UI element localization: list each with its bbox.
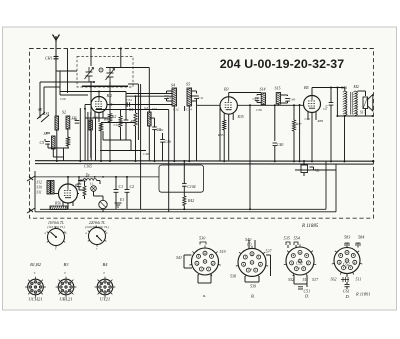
wire: IF1 sec drop	[196, 105, 198, 161]
wire: IF1 ties	[167, 91, 197, 101]
svg-text:S11: S11	[37, 191, 42, 195]
capacitor C5	[45, 142, 50, 145]
junction B1 plate	[111, 104, 113, 106]
svg-text:S17: S17	[360, 111, 366, 115]
wire: C7 wires	[125, 105, 127, 141]
capacitor C6	[75, 121, 80, 124]
wire: antenna branch	[56, 70, 77, 72]
svg-text:B.: B.	[251, 294, 255, 299]
wire: left rail	[34, 171, 36, 212]
socket D	[332, 245, 362, 275]
wire: socket D wires	[347, 243, 358, 289]
power coil S11	[51, 180, 54, 194]
wire: R36 wires	[293, 105, 295, 161]
wire: cluster bottom tie	[48, 144, 69, 161]
wire: long drop	[219, 108, 221, 161]
svg-text:C6a: C6a	[72, 117, 78, 121]
svg-text:537: 537	[266, 249, 273, 254]
wire: mid tops	[110, 105, 155, 128]
junction grid	[84, 108, 86, 110]
svg-text:C40: C40	[290, 98, 296, 102]
svg-text:a.: a.	[203, 293, 206, 298]
svg-text:C34: C34	[126, 98, 132, 102]
capacitor C61	[345, 285, 350, 287]
bus junction dots	[56, 160, 346, 162]
svg-text:B.2: B.2	[107, 93, 112, 98]
svg-text:S5: S5	[186, 82, 190, 87]
capacitor C13	[255, 98, 260, 101]
wire: left horiz A	[40, 82, 94, 87]
junction OT	[336, 87, 338, 89]
wire: S3 drop	[53, 149, 63, 157]
wire: C104 wires	[183, 161, 185, 196]
capacitor C14	[285, 99, 290, 102]
ground E1	[115, 203, 122, 207]
svg-text:C62: C62	[343, 262, 350, 267]
capacitor C40	[273, 143, 278, 146]
junction det2	[299, 104, 301, 106]
wire: lamp wires	[94, 191, 104, 212]
svg-text:S4: S4	[144, 107, 148, 111]
svg-text:C13: C13	[253, 97, 259, 101]
top marks D	[345, 243, 360, 246]
capacitor C16	[160, 140, 165, 143]
wire: socket A loop	[184, 255, 211, 283]
socket D pin digits	[339, 252, 356, 270]
junction bus right	[372, 160, 374, 162]
junction jack	[303, 160, 305, 162]
wire: IF1 out	[189, 95, 196, 97]
IF2 secondary S15	[276, 92, 280, 104]
svg-text:S2: S2	[62, 110, 66, 115]
wire: R33 drop	[223, 130, 225, 161]
capacitor C22 tone	[329, 103, 334, 106]
svg-text:R56: R56	[54, 202, 61, 206]
svg-text:552: 552	[288, 277, 294, 282]
resistor R1	[66, 137, 69, 146]
wire: mid horiz2	[85, 118, 136, 123]
svg-text:R 11885: R 11885	[301, 224, 319, 229]
svg-text:C10: C10	[114, 123, 120, 127]
svg-text:S3: S3	[44, 131, 48, 136]
svg-text:511: 511	[356, 277, 362, 282]
wire: left rail A	[40, 82, 44, 118]
socket UCH21	[25, 277, 46, 298]
variable capacitor C3	[85, 67, 94, 82]
svg-text:C1: C1	[119, 184, 124, 189]
selector 110V	[47, 226, 65, 247]
svg-text:R32: R32	[130, 119, 137, 123]
variable capacitor C4	[106, 68, 115, 83]
capacitor C2	[125, 190, 130, 193]
resistor R34	[83, 186, 86, 196]
wire: R5 wires	[120, 110, 122, 141]
wire: top-left drop	[60, 49, 88, 96]
svg-text:C2: C2	[130, 184, 135, 189]
svg-text:519: 519	[220, 249, 226, 254]
wire: B3 top	[229, 93, 262, 97]
svg-text:M2: M2	[353, 84, 359, 89]
wire: osc feedback	[106, 68, 149, 105]
junction osc	[135, 95, 137, 97]
wire: mid drops	[91, 122, 154, 161]
svg-text:R4: R4	[128, 108, 133, 112]
wire: gang to top rail	[91, 49, 121, 68]
junction IF2 out	[274, 104, 276, 106]
socket A	[189, 245, 220, 276]
wire: S1 bottom	[57, 129, 68, 161]
wire: C16 drop	[163, 110, 169, 212]
svg-text:C36: C36	[256, 108, 262, 112]
wire: speaker bottom	[365, 109, 367, 117]
wire: B3 plate	[237, 104, 303, 106]
svg-text:562: 562	[331, 277, 337, 282]
svg-text:(220/380 Volt TL): (220/380 Volt TL)	[85, 225, 108, 229]
wire: C22 drop	[330, 98, 332, 161]
wire: C1C2 wires	[116, 177, 127, 209]
junction det	[293, 104, 295, 106]
mark 111	[341, 277, 349, 282]
svg-text:Cn: Cn	[323, 107, 327, 111]
coil S3	[52, 136, 56, 149]
svg-text:C5: C5	[40, 140, 45, 145]
svg-text:C9: C9	[167, 96, 171, 100]
junction screen-bus	[249, 208, 251, 210]
wire: B5 legs	[308, 112, 316, 161]
svg-text:(110 Volt TL): (110 Volt TL)	[47, 225, 64, 229]
socket C	[284, 244, 316, 276]
wire: det riser	[299, 105, 301, 161]
wire: rect wires	[54, 177, 79, 194]
svg-text:517: 517	[312, 277, 319, 282]
trimmer	[99, 68, 103, 72]
mains arrow upper	[27, 176, 35, 181]
capacitor C9	[164, 96, 169, 99]
socket UBL21	[56, 277, 77, 298]
svg-text:UCH21: UCH21	[28, 297, 42, 302]
svg-text:E1: E1	[119, 198, 124, 202]
svg-text:C48: C48	[143, 152, 149, 156]
resistor R2	[108, 114, 111, 123]
wire: twin risers	[128, 84, 138, 140]
svg-text:S15: S15	[275, 86, 281, 91]
wire: block horiz	[100, 131, 146, 151]
resistor R3	[99, 123, 102, 132]
wire: HT bus upper	[35, 160, 374, 163]
svg-text:S12: S12	[37, 181, 43, 185]
svg-text:R38: R38	[317, 119, 324, 123]
fuse lamp	[99, 200, 107, 208]
capacitor C104	[182, 184, 187, 187]
tube B1 (UCH21 mixer)	[91, 97, 107, 113]
junction C2 top	[126, 176, 128, 178]
wire: R42 drop	[183, 206, 185, 210]
wire: gang drops	[91, 81, 110, 116]
svg-text:C104: C104	[187, 185, 195, 189]
wire: choke ends	[78, 181, 100, 185]
mains arrow lower	[27, 208, 35, 213]
svg-text:S1: S1	[46, 111, 50, 116]
svg-text:B5: B5	[304, 85, 309, 90]
wire: jack wires	[295, 161, 336, 176]
svg-text:R37: R37	[295, 122, 302, 126]
junction R42 bottom	[183, 208, 185, 210]
wire: ground bus inner	[40, 161, 326, 209]
socket B pin digits	[244, 254, 261, 272]
resistor R36	[292, 120, 295, 131]
transformer core	[350, 92, 352, 115]
wire: B3 legs	[224, 113, 233, 160]
svg-text:583: 583	[344, 235, 350, 240]
wire: left horiz B	[44, 133, 50, 140]
wire: HT bus lower	[35, 163, 374, 166]
svg-text:D.: D.	[304, 294, 309, 299]
svg-text:C30: C30	[93, 116, 99, 120]
wire: psu mid wires	[79, 177, 85, 199]
svg-text:C11: C11	[198, 96, 204, 100]
IF1 secondary S5	[187, 88, 192, 106]
wire: IF1 drops	[174, 106, 189, 161]
dial lamp	[91, 186, 97, 192]
top marks C	[286, 242, 298, 245]
coil S1a hatched	[89, 120, 92, 130]
svg-text:C40: C40	[277, 143, 283, 147]
power coil S10	[47, 180, 50, 194]
pickup jack	[301, 165, 308, 173]
capacitor C30	[77, 184, 82, 187]
svg-text:CH1: CH1	[45, 56, 53, 61]
svg-text:S10: S10	[37, 186, 43, 190]
svg-text:204 U-00-19-20-32-37: 204 U-00-19-20-32-37	[220, 57, 345, 71]
svg-text:S16: S16	[341, 85, 347, 90]
svg-text:C35: C35	[305, 117, 311, 121]
svg-text:C52: C52	[296, 261, 303, 266]
junction gang-left	[90, 48, 92, 50]
resistor R42	[183, 196, 186, 206]
svg-text:539: 539	[250, 284, 256, 289]
wire: C40 drop	[274, 146, 276, 161]
wire: B5 plate to OT	[312, 88, 345, 96]
wire: negative-rail loop	[159, 165, 204, 192]
capacitor C8	[152, 127, 157, 130]
svg-text:C26: C26	[60, 97, 66, 101]
socket A pin digits	[197, 253, 214, 271]
output transformer primary S16	[343, 91, 347, 116]
resistor R5	[119, 116, 122, 127]
selector 220V	[88, 225, 106, 246]
svg-text:584: 584	[358, 235, 364, 240]
power line junction dots	[78, 176, 104, 178]
tube B4 rectifier (UY21)	[59, 184, 78, 203]
wire: osc top link	[126, 92, 172, 110]
wire: antenna lead	[55, 40, 57, 116]
svg-text:535: 535	[284, 236, 290, 241]
tube B3 (UCH21 IF)	[220, 97, 237, 114]
svg-text:530: 530	[199, 236, 206, 241]
svg-text:R35: R35	[237, 115, 244, 119]
socket C pin digits	[292, 252, 309, 270]
coil S2	[66, 116, 70, 129]
wire: tone cap tap	[330, 88, 332, 101]
svg-text:538: 538	[230, 274, 236, 279]
capacitor C34 series	[127, 102, 129, 107]
tube B5 (UBL21 output)	[304, 96, 321, 113]
wire: IF2 ties	[257, 95, 288, 104]
svg-text:B3: B3	[64, 262, 70, 267]
wire: socket C wires	[288, 245, 307, 287]
wire: to B3 grid	[197, 101, 221, 105]
wire: socket B wires	[245, 240, 271, 282]
tuning gang dashed box	[77, 57, 133, 88]
resistor R4	[134, 113, 137, 126]
svg-text:B4: B4	[103, 262, 109, 267]
choke Dr	[83, 179, 97, 181]
svg-text:UY21: UY21	[100, 297, 110, 302]
wire: OT sec to speaker	[358, 91, 366, 96]
socket UY21	[95, 277, 116, 298]
wire: B1 plate line	[107, 104, 172, 106]
wire: rect legs	[63, 202, 73, 210]
svg-text:R55: R55	[217, 133, 224, 137]
capacitor C1	[114, 190, 119, 193]
junction gang-right	[120, 48, 122, 50]
svg-text:C61: C61	[343, 289, 350, 294]
wire: B1 legs	[95, 112, 103, 122]
junction C104 top	[183, 160, 185, 162]
svg-text:B3: B3	[224, 87, 229, 92]
junction C1 top	[115, 176, 117, 178]
mains dropper R56	[50, 206, 67, 210]
gang chassis bar	[82, 85, 128, 87]
svg-text:541: 541	[176, 255, 182, 260]
speaker	[363, 95, 373, 112]
svg-text:554: 554	[294, 236, 300, 241]
capacitor C51	[298, 287, 303, 289]
wire: mid drops2	[140, 84, 142, 209]
resistor R33	[223, 120, 226, 130]
capacitor CH1 marks	[54, 56, 59, 58]
svg-text:R42: R42	[187, 199, 194, 203]
svg-text:SE: SE	[38, 108, 43, 112]
wire: B1 grid	[85, 105, 91, 109]
svg-text:R2: R2	[111, 115, 116, 119]
wire: mid horiz1	[96, 109, 169, 111]
IF1 primary S4	[172, 88, 177, 106]
svg-text:R9: R9	[103, 118, 108, 122]
svg-text:S4: S4	[171, 83, 175, 88]
coil S1	[55, 116, 59, 130]
antenna	[53, 35, 60, 43]
svg-text:C16: C16	[165, 140, 171, 144]
wire: OT bottom	[337, 88, 372, 161]
output transformer secondary M2	[353, 91, 357, 116]
wire: B3 screen riser	[249, 105, 251, 209]
wire: ground bus outer	[35, 164, 336, 212]
wire: cluster risers	[80, 108, 95, 161]
svg-text:S19: S19	[152, 107, 157, 111]
band switch SE	[37, 112, 49, 122]
socket B	[236, 246, 268, 278]
capacitor C7	[124, 120, 129, 123]
wire: power top line	[35, 176, 159, 178]
mark 530	[200, 242, 206, 245]
junction tone tap	[330, 87, 332, 89]
capacitor C10	[194, 96, 199, 99]
svg-text:C165: C165	[84, 165, 92, 169]
wire: IF2 drops	[263, 104, 278, 141]
svg-text:D.: D.	[345, 294, 350, 299]
IF2 primary S14	[261, 93, 265, 105]
svg-text:R 11891: R 11891	[355, 292, 370, 297]
svg-text:UBL21: UBL21	[59, 297, 72, 302]
junction B3 plate	[249, 104, 251, 106]
svg-text:L1: L1	[89, 182, 94, 186]
junction rect top	[67, 176, 69, 178]
chassis dashed border	[30, 49, 374, 219]
svg-text:C49: C49	[158, 128, 164, 132]
svg-text:Dr: Dr	[85, 173, 91, 178]
wire: osc grid line	[60, 92, 126, 97]
coil osc	[148, 112, 152, 126]
svg-text:S14: S14	[260, 87, 266, 92]
